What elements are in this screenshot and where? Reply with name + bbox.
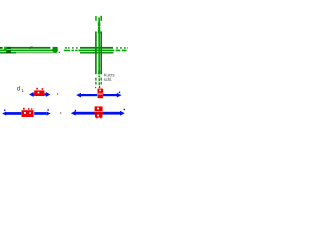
- wire main line bottom conductor: [0, 52, 114, 53]
- stub right conductor: [100, 16, 102, 85]
- wire main line top conductor: [0, 47, 113, 49]
- background: [0, 0, 128, 128]
- node bright terminal x4: [4, 47, 7, 52]
- svg-text:1: 1: [21, 88, 24, 93]
- dimension arrow A3 row2 left: [2, 109, 50, 115]
- wire main line centre conductor: [0, 50, 127, 52]
- value label red lambda/4 row1 left: [34, 88, 44, 96]
- value label red fraction row1 right: [97, 87, 103, 99]
- value label red 0,2 lambda row2 left: [22, 108, 34, 117]
- node small dot below generator: [59, 52, 60, 53]
- svg-text:schl.: schl.: [104, 77, 113, 82]
- dimension arrow A4 row2 right: [71, 109, 125, 116]
- label black text right of stub end: [104, 72, 115, 82]
- svg-text:d: d: [17, 86, 21, 93]
- tiny speck row1 gap: [57, 93, 58, 94]
- generator G1 blob at end of left line: [52, 47, 58, 53]
- dimension arrow A1 row1 left: [29, 92, 50, 97]
- wire main line top conductor dashes: [65, 47, 128, 49]
- stub left conductor: [95, 16, 97, 88]
- value label red fraction row2 right: [94, 106, 103, 118]
- node dark segment at line start: [0, 47, 31, 53]
- tiny speck row2 gap: [60, 112, 61, 113]
- dimension arrow A2 row1 right: [76, 92, 121, 98]
- stub centre conductor: [98, 18, 101, 88]
